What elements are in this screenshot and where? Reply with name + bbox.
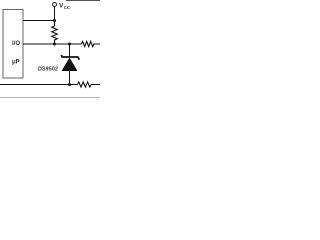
resistor R1 pull-up [52,21,58,45]
wire diode bottom [69,71,71,85]
svg-text:I/O: I/O [12,41,20,47]
ground rail wire [0,84,78,86]
junction dot Vcc node [53,19,56,22]
wire box to Vcc node [23,20,55,22]
junction dot ground node [68,83,71,86]
wire Vcc vertical [54,7,56,21]
zener diode D1 triangle [62,58,78,72]
svg-text:CC: CC [64,5,70,10]
resistor R2 series [82,41,101,46]
junction dot A [53,43,56,46]
svg-text:μP: μP [12,60,20,66]
zener diode D1 DS9502 cathode bar [61,55,79,60]
wire diode top [69,44,71,57]
wire I/O line [23,43,82,45]
resistor R3 ground return [78,82,101,87]
Vcc terminal circle [53,3,57,7]
bottom border line [0,97,100,99]
microprocessor box U1 [3,10,23,79]
junction dot B [68,43,71,46]
top border line [66,0,100,2]
svg-text:DS9502: DS9502 [38,67,58,73]
